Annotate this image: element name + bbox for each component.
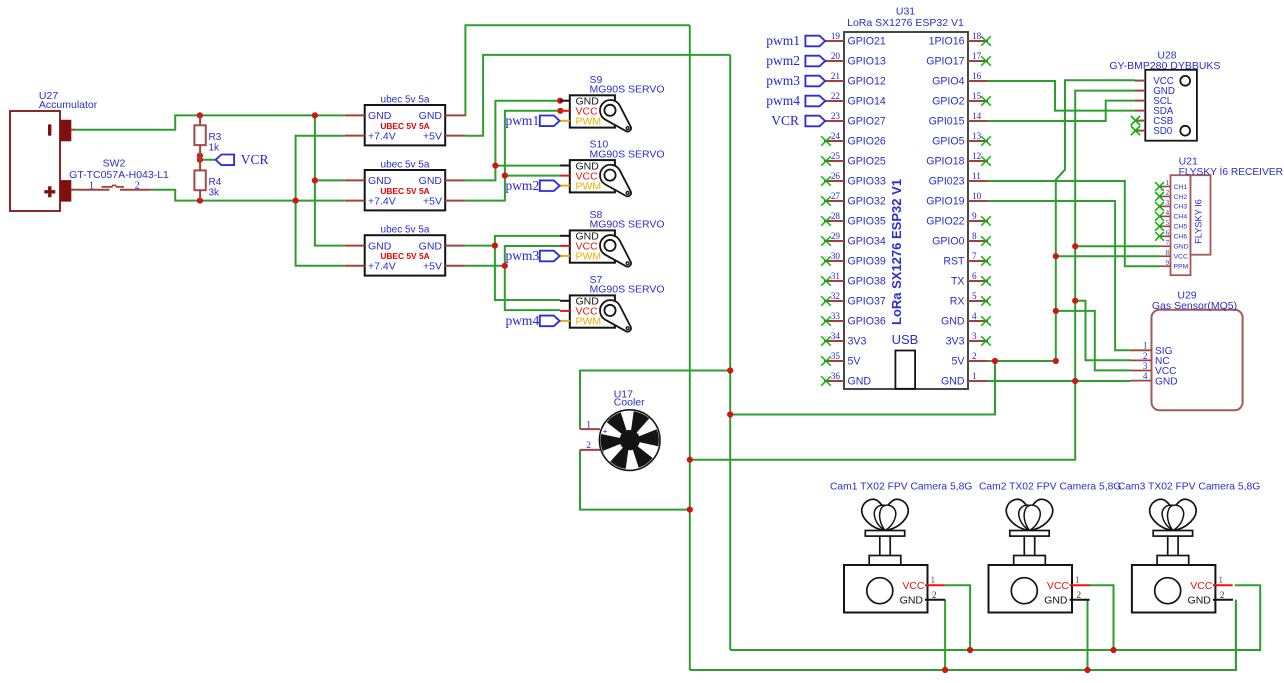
- wire switch to plus rail: [151, 190, 345, 201]
- junction: [1053, 308, 1059, 314]
- svg-text:14: 14: [972, 111, 982, 121]
- fan pin 2: [580, 449, 600, 451]
- net label pwm1 at servo: [505, 113, 560, 128]
- U21 pin 4 CH4: [1155, 210, 1187, 221]
- svg-text:CH6: CH6: [1174, 234, 1188, 241]
- U21 pin 9 PPM: [1160, 260, 1189, 271]
- svg-text:GPIO14: GPIO14: [848, 96, 886, 108]
- camera Cam1 TX02 FPV 5.8G: [830, 481, 972, 612]
- svg-text:3k: 3k: [209, 188, 221, 199]
- net label pwm3 at U31: [766, 73, 825, 88]
- svg-text:GPIO2: GPIO2: [932, 96, 964, 108]
- wire 5V pin2 row: [988, 360, 1056, 362]
- pin 31 GPIO38: [821, 271, 886, 288]
- wire branch to U29 NC: [1075, 301, 1130, 361]
- Cam1 pin 1 VCC: [925, 584, 945, 586]
- junction: [197, 112, 203, 118]
- junction: [502, 173, 508, 179]
- svg-text:3V3: 3V3: [946, 336, 965, 348]
- wire GPIO19 to U29 SIG: [988, 201, 1131, 350]
- svg-text:GPIO25: GPIO25: [848, 156, 886, 168]
- pin 2 5V: [952, 351, 988, 368]
- camera Cam3 TX02 FPV 5.8G: [1118, 481, 1260, 612]
- svg-text:R4: R4: [209, 177, 222, 188]
- junction: [1053, 358, 1059, 364]
- svg-text:1: 1: [1143, 341, 1148, 351]
- wire GND trunk vertical: [689, 25, 691, 670]
- svg-text:GPIO27: GPIO27: [848, 116, 886, 128]
- wire battery minus to GND rail: [74, 115, 345, 129]
- svg-text:28: 28: [831, 211, 841, 221]
- wire +7.4V chain to ubec1 and ubec3: [296, 136, 345, 266]
- U28 pin SCL: [1135, 96, 1173, 107]
- svg-text:pwm4: pwm4: [766, 93, 800, 108]
- svg-text:Cam1 TX02 FPV Camera 5,8G: Cam1 TX02 FPV Camera 5,8G: [830, 481, 972, 492]
- svg-text:GPIO34: GPIO34: [848, 236, 886, 248]
- svg-text:1: 1: [1218, 575, 1223, 585]
- Cam2 pin 2 GND: [1070, 599, 1090, 601]
- IC U31 LoRa SX1276 ESP32 V1: [844, 6, 968, 390]
- servo S7 MG90S: [560, 274, 664, 332]
- wire ubec3 GND stub join: [465, 245, 495, 247]
- U28 pin SD0: [1131, 126, 1173, 137]
- wire VCC bus bottom: [730, 585, 1260, 650]
- junction: [502, 263, 508, 269]
- svg-text:PWM: PWM: [576, 251, 602, 263]
- wire ubec3 +5V stub join: [465, 265, 505, 267]
- wire 5V riser with jog to U28 VCC: [1056, 80, 1135, 361]
- svg-text:+7.4V: +7.4V: [368, 261, 396, 273]
- svg-text:5: 5: [1166, 220, 1170, 227]
- svg-text:30: 30: [831, 251, 841, 261]
- junction: [492, 163, 498, 169]
- svg-text:4: 4: [1166, 210, 1170, 217]
- U29 pin 3 VCC: [1131, 361, 1177, 377]
- wire GND pin1 row to U29 GND: [988, 380, 1131, 382]
- svg-text:+5V: +5V: [423, 261, 442, 273]
- svg-text:GPIO13: GPIO13: [848, 56, 886, 68]
- U28 pin SDA: [1135, 106, 1174, 117]
- junction: [942, 667, 948, 673]
- svg-text:CH2: CH2: [1174, 194, 1188, 201]
- wire branch to S10 VCC: [505, 175, 561, 177]
- sensor U29 Gas Sensor MQ5: [1131, 289, 1243, 410]
- pin 36 GND: [821, 371, 871, 388]
- svg-text:7: 7: [1166, 240, 1170, 247]
- U21 pin 5 CH5: [1155, 220, 1187, 231]
- net label pwm1 at U31: [766, 33, 825, 48]
- U28 pin VCC: [1135, 76, 1174, 87]
- pin 1 GND: [941, 371, 988, 388]
- pin 34 3V3: [821, 331, 866, 348]
- USB connector on U31: [892, 332, 919, 389]
- svg-text:TX: TX: [951, 276, 965, 288]
- wire GND riser to U28 GND: [690, 91, 1135, 460]
- U29 pin 2 NC: [1131, 351, 1170, 367]
- pin 35 5V: [821, 351, 861, 368]
- Cam2 pin 1 VCC: [1070, 584, 1090, 586]
- junction: [557, 98, 563, 104]
- svg-text:GND: GND: [900, 595, 924, 607]
- junction: [1072, 378, 1078, 384]
- pin 4 GND: [941, 311, 991, 328]
- wire GND chain branch to ubec2: [315, 179, 345, 181]
- svg-text:2: 2: [1166, 190, 1170, 197]
- net label VCR at divider: [216, 152, 269, 167]
- svg-text:22: 22: [831, 91, 841, 101]
- svg-text:1: 1: [931, 575, 936, 585]
- wire branch to U21 GND: [1075, 245, 1160, 247]
- svg-text:36: 36: [831, 371, 841, 381]
- svg-text:1PIO16: 1PIO16: [929, 36, 965, 48]
- svg-text:12: 12: [972, 151, 982, 161]
- svg-text:CH4: CH4: [1174, 214, 1188, 221]
- svg-text:GPIO21: GPIO21: [848, 36, 886, 48]
- pin 13 GPIO5: [932, 131, 991, 148]
- junction: [1072, 298, 1078, 304]
- resistor R4 3k: [194, 170, 221, 200]
- pin 15 GPIO2: [932, 91, 991, 108]
- svg-text:GND: GND: [1174, 244, 1189, 251]
- net label VCR at U31: [771, 113, 825, 128]
- svg-text:3V3: 3V3: [848, 336, 867, 348]
- svg-text:U31: U31: [896, 6, 915, 18]
- svg-text:GPIO18: GPIO18: [926, 156, 964, 168]
- svg-text:GND: GND: [848, 376, 872, 388]
- voltage regulator ubec1 5v 5a: [345, 95, 466, 146]
- svg-text:33: 33: [831, 311, 841, 321]
- U21 pin 7 GND: [1160, 240, 1189, 251]
- svg-text:11: 11: [972, 171, 981, 181]
- wire fan pin1 to 5V trunk: [580, 371, 730, 430]
- svg-text:1k: 1k: [209, 142, 221, 153]
- pin 16 GPIO4: [932, 71, 988, 88]
- svg-text:USB: USB: [892, 332, 919, 347]
- svg-text:PWM: PWM: [576, 180, 602, 192]
- sensor U28 GY-BMP280 DYBBUKS: [1109, 50, 1220, 141]
- wire fan pin2 to GND trunk: [580, 450, 690, 510]
- svg-text:26: 26: [831, 171, 841, 181]
- svg-text:9: 9: [1166, 260, 1170, 267]
- svg-text:pwm1: pwm1: [505, 113, 539, 128]
- pin 17 GPIO17: [926, 51, 991, 67]
- wire GPI023 to U21 PPM: [988, 181, 1160, 266]
- svg-text:29: 29: [831, 231, 841, 241]
- junction: [312, 112, 318, 118]
- svg-text:VCC: VCC: [1190, 580, 1213, 592]
- svg-text:pwm3: pwm3: [766, 73, 800, 88]
- svg-text:GPIO4: GPIO4: [932, 76, 964, 88]
- svg-text:3: 3: [1166, 200, 1170, 207]
- svg-text:20: 20: [831, 51, 841, 61]
- svg-text:1: 1: [1075, 575, 1080, 585]
- svg-text:2: 2: [972, 351, 977, 361]
- svg-text:GPI023: GPI023: [929, 176, 965, 188]
- pin 6 TX: [951, 271, 991, 288]
- svg-text:FLYSKY İ6 RECEIVER: FLYSKY İ6 RECEIVER: [1179, 165, 1283, 178]
- svg-text:FLYSKY I6: FLYSKY I6: [1193, 199, 1203, 244]
- svg-text:35: 35: [831, 351, 841, 361]
- pin 19 GPIO21: [824, 31, 886, 48]
- svg-text:34: 34: [831, 331, 841, 341]
- pin 8 GPIO0: [932, 231, 991, 248]
- svg-text:ubec 5v 5a: ubec 5v 5a: [381, 95, 430, 106]
- svg-text:6: 6: [1166, 230, 1170, 237]
- svg-text:PWM: PWM: [576, 116, 602, 128]
- wire ubec2 +5V out to S9/S10 VCC: [465, 111, 560, 201]
- svg-text:3: 3: [972, 331, 977, 341]
- svg-text:7: 7: [972, 251, 977, 261]
- pin 25 GPIO25: [821, 151, 886, 168]
- svg-text:GPIO35: GPIO35: [848, 216, 886, 228]
- wire branch to S10 GND: [495, 165, 560, 167]
- Cam3 pin 2 GND: [1213, 599, 1233, 601]
- U28 pin GND: [1135, 86, 1175, 97]
- svg-text:CH1: CH1: [1174, 184, 1188, 191]
- junction: [967, 647, 973, 653]
- svg-text:Cam2 TX02 FPV Camera 5,8G: Cam2 TX02 FPV Camera 5,8G: [979, 481, 1121, 492]
- pin 27 GPIO32: [821, 191, 886, 208]
- junction: [1053, 253, 1059, 259]
- servo S9 MG90S: [560, 74, 664, 132]
- svg-text:+7.4V: +7.4V: [368, 195, 396, 207]
- wire GND chain to ubec2 and ubec3: [315, 115, 345, 245]
- svg-text:GPIO5: GPIO5: [932, 136, 964, 148]
- svg-text:GPIO19: GPIO19: [926, 196, 964, 208]
- pin 23 GPIO27: [824, 111, 886, 128]
- svg-text:GPIO38: GPIO38: [848, 276, 886, 288]
- net label pwm2 at U31: [766, 53, 825, 68]
- svg-text:ubec 5v 5a: ubec 5v 5a: [381, 160, 430, 171]
- svg-text:PWM: PWM: [576, 316, 602, 328]
- svg-text:GND: GND: [941, 376, 965, 388]
- svg-text:1: 1: [89, 181, 94, 192]
- svg-text:19: 19: [831, 31, 841, 41]
- switch SW2: [69, 158, 169, 192]
- svg-text:MG90S SERVO: MG90S SERVO: [590, 219, 665, 231]
- battery U27 Accumulator: [10, 90, 98, 211]
- svg-text:Cam3 TX02 FPV Camera 5,8G: Cam3 TX02 FPV Camera 5,8G: [1118, 481, 1260, 492]
- wire branch to U21 VCC: [1056, 255, 1160, 257]
- svg-text:2: 2: [1077, 590, 1082, 600]
- svg-text:3: 3: [1143, 361, 1148, 371]
- svg-text:VCC: VCC: [902, 580, 925, 592]
- camera Cam2 TX02 FPV 5.8G: [979, 481, 1121, 612]
- net label pwm4 at U31: [766, 93, 825, 108]
- svg-text:GPIO0: GPIO0: [932, 236, 964, 248]
- svg-text:MG90S SERVO: MG90S SERVO: [590, 284, 665, 296]
- junction: [1084, 667, 1090, 673]
- svg-text:13: 13: [972, 131, 982, 141]
- svg-text:GPIO12: GPIO12: [848, 76, 886, 88]
- svg-text:GPIO37: GPIO37: [848, 296, 886, 308]
- svg-text:Accumulator: Accumulator: [39, 99, 98, 111]
- svg-text:pwm1: pwm1: [766, 33, 800, 48]
- pin 5 RX: [950, 291, 991, 308]
- svg-text:GPIO26: GPIO26: [848, 136, 886, 148]
- wire cam3 GND drop: [1235, 600, 1237, 670]
- wire cam2 VCC drop: [1089, 585, 1114, 650]
- junction: [492, 243, 498, 249]
- svg-text:17: 17: [972, 51, 982, 61]
- svg-text:MG90S SERVO: MG90S SERVO: [590, 84, 665, 96]
- svg-text:Gas Sensor(MQ5): Gas Sensor(MQ5): [1152, 300, 1237, 312]
- voltage regulator ubec2 5v 5a: [345, 160, 466, 211]
- junction: [557, 108, 563, 114]
- wire GND bus bottom: [690, 600, 1236, 670]
- svg-text:9: 9: [972, 211, 977, 221]
- svg-text:4: 4: [972, 311, 977, 321]
- pin 21 GPIO12: [824, 71, 886, 88]
- svg-text:2: 2: [1220, 590, 1225, 600]
- voltage regulator ubec3 5v 5a: [345, 225, 466, 276]
- resistor R3 1k: [194, 115, 221, 170]
- svg-text:LoRa SX1276 ESP32 V1: LoRa SX1276 ESP32 V1: [889, 179, 904, 325]
- svg-text:32: 32: [831, 291, 841, 301]
- svg-text:RST: RST: [943, 256, 965, 268]
- svg-text:15: 15: [972, 91, 982, 101]
- wire ubec1 GND out up and across to GND trunk: [465, 25, 690, 115]
- svg-text:VCR: VCR: [241, 152, 269, 167]
- svg-text:SD0: SD0: [1153, 126, 1173, 137]
- svg-text:25: 25: [831, 151, 841, 161]
- svg-text:pwm3: pwm3: [505, 248, 539, 263]
- U29 pin 4 GND: [1131, 371, 1178, 387]
- svg-text:+: +: [603, 427, 608, 436]
- svg-text:5: 5: [972, 291, 977, 301]
- svg-text:24: 24: [831, 131, 841, 141]
- svg-text:27: 27: [831, 191, 841, 201]
- svg-text:21: 21: [831, 71, 841, 81]
- U21 pin 6 CH6: [1155, 230, 1187, 241]
- svg-text:18: 18: [972, 31, 982, 41]
- svg-text:6: 6: [972, 271, 977, 281]
- junction: [312, 177, 318, 183]
- svg-text:4: 4: [1143, 371, 1148, 381]
- fan pin 1: [580, 428, 600, 430]
- svg-text:8: 8: [972, 231, 977, 241]
- pin 11 GPI023: [929, 171, 988, 188]
- wire cam1 VCC drop: [945, 585, 970, 650]
- svg-text:1: 1: [586, 420, 591, 430]
- svg-text:GND: GND: [1188, 595, 1212, 607]
- svg-text:CH3: CH3: [1174, 204, 1188, 211]
- U21 pin 8 VCC: [1160, 250, 1188, 261]
- svg-text:Cooler: Cooler: [614, 396, 645, 408]
- wire GPI015 to U28 SCL: [988, 101, 1135, 121]
- svg-text:GPIO36: GPIO36: [848, 316, 886, 328]
- svg-text:GY-BMP280 DYBBUKS: GY-BMP280 DYBBUKS: [1109, 60, 1220, 72]
- svg-text:CH5: CH5: [1174, 224, 1188, 231]
- pin 26 GPIO33: [821, 171, 886, 188]
- pin 10 GPIO19: [926, 191, 988, 208]
- pin 9 GPIO22: [926, 211, 991, 228]
- svg-text:31: 31: [831, 271, 841, 281]
- svg-text:+5V: +5V: [423, 130, 442, 142]
- svg-text:pwm4: pwm4: [505, 313, 539, 328]
- junction: [687, 507, 693, 513]
- svg-text:1: 1: [1166, 180, 1169, 187]
- svg-text:GND: GND: [1044, 595, 1068, 607]
- svg-text:-: -: [602, 447, 605, 456]
- pin 18 1PIO16: [929, 31, 991, 48]
- svg-text:LoRa SX1276 ESP32 V1: LoRa SX1276 ESP32 V1: [847, 17, 964, 29]
- pin 12 GPIO18: [926, 151, 991, 168]
- junction: [197, 198, 203, 204]
- svg-text:GPIO39: GPIO39: [848, 256, 886, 268]
- U21 pin 3 CH3: [1155, 200, 1187, 211]
- wire VCR tap from divider: [200, 159, 216, 161]
- svg-text:pwm2: pwm2: [505, 178, 539, 193]
- svg-text:GPIO33: GPIO33: [848, 176, 886, 188]
- junction: [197, 157, 203, 163]
- wire 5V drop to trunk: [730, 361, 995, 415]
- junction: [687, 457, 693, 463]
- svg-text:8: 8: [1166, 250, 1170, 257]
- wire ubec2 GND out to S9/S10 GND: [465, 101, 560, 181]
- net label pwm2 at servo: [505, 178, 560, 193]
- svg-text:MG90S SERVO: MG90S SERVO: [590, 148, 665, 160]
- svg-text:GPI015: GPI015: [929, 116, 965, 128]
- svg-text:2: 2: [932, 590, 937, 600]
- Cam3 pin 1 VCC: [1213, 584, 1233, 586]
- pin 7 RST: [943, 251, 990, 268]
- U21 pin 2 CH2: [1155, 190, 1187, 201]
- svg-text:SW2: SW2: [103, 158, 126, 170]
- pin 24 GPIO26: [821, 131, 886, 148]
- svg-text:5V: 5V: [848, 356, 862, 368]
- pin 3 3V3: [946, 331, 991, 348]
- U29 pin 1 SIG: [1131, 341, 1173, 357]
- wire cam2 GND drop: [1087, 600, 1089, 670]
- svg-text:PPM: PPM: [1174, 263, 1189, 270]
- svg-text:+5V: +5V: [423, 195, 442, 207]
- svg-text:RX: RX: [950, 296, 965, 308]
- svg-text:23: 23: [831, 111, 841, 121]
- svg-text:pwm2: pwm2: [766, 53, 800, 68]
- servo S10 MG90S: [560, 139, 664, 197]
- svg-text:VCR: VCR: [771, 113, 799, 128]
- svg-text:5V: 5V: [952, 356, 966, 368]
- pin 33 GPIO36: [821, 311, 886, 328]
- svg-text:2: 2: [1143, 351, 1148, 361]
- svg-text:2: 2: [135, 181, 140, 192]
- svg-text:U21: U21: [1179, 155, 1198, 167]
- svg-text:VCC: VCC: [1047, 580, 1070, 592]
- junction: [197, 153, 203, 159]
- junction: [1110, 647, 1116, 653]
- pin 14 GPI015: [929, 111, 988, 128]
- pin 20 GPIO13: [824, 51, 886, 67]
- svg-text:GPIO32: GPIO32: [848, 196, 886, 208]
- svg-text:GND: GND: [1155, 376, 1178, 387]
- wire 5V trunk vertical: [729, 55, 731, 650]
- svg-text:GPIO17: GPIO17: [926, 56, 964, 68]
- wire GPIO4 to U28 SDA: [988, 81, 1135, 111]
- wire branch to U29 VCC: [1056, 311, 1131, 371]
- pin 32 GPIO37: [821, 291, 886, 308]
- pin 29 GPIO34: [821, 231, 886, 248]
- svg-text:GND: GND: [941, 316, 965, 328]
- svg-text:2: 2: [586, 441, 591, 451]
- net label pwm3 at servo: [505, 248, 560, 263]
- net label pwm4 at servo: [505, 313, 560, 328]
- pin 30 GPIO39: [821, 251, 886, 268]
- junction: [727, 411, 733, 417]
- pin 28 GPIO35: [821, 211, 886, 228]
- wire cam1 GND drop: [944, 600, 946, 670]
- wire ubec3 +5V out to S8/S7 VCC: [505, 246, 561, 310]
